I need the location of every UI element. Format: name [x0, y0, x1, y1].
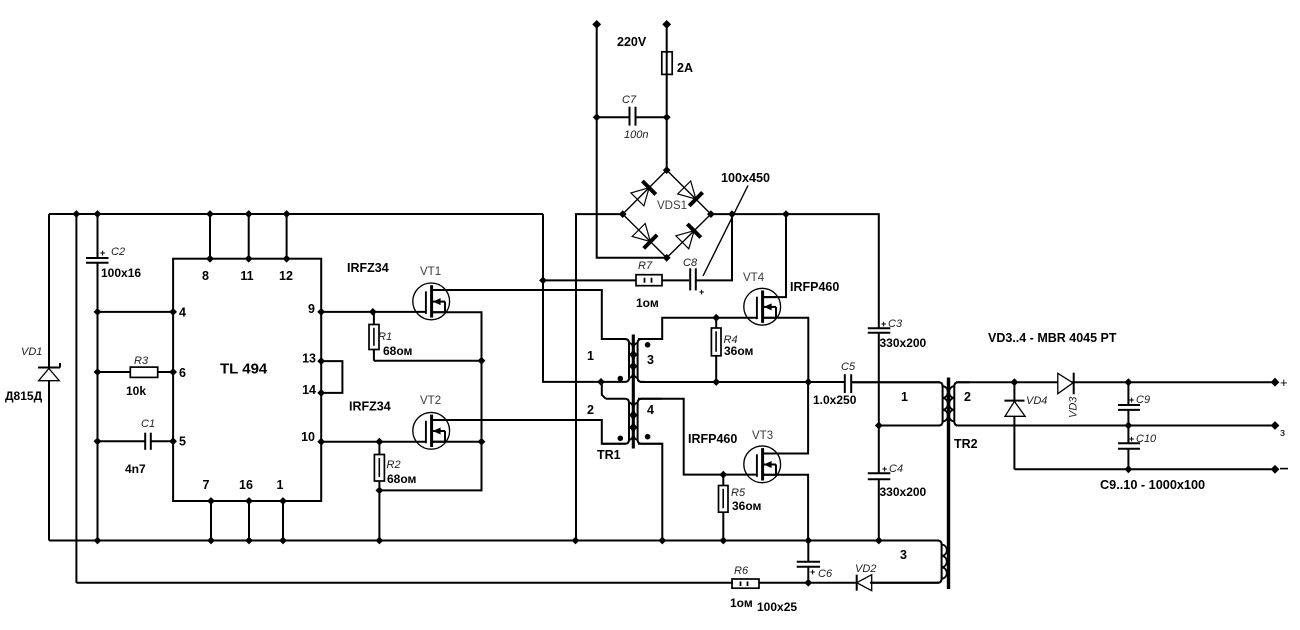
capacitor C4: [868, 463, 927, 499]
op-amp U1 TL494 body: [173, 259, 321, 501]
node C6 / feedback rail: [804, 579, 812, 587]
node R2 top: [376, 438, 384, 446]
pin 11 label: [240, 269, 253, 283]
bridge diode top-right: [678, 181, 703, 206]
node top rail / feedback branch: [73, 210, 81, 218]
wire VT4 source to midpoint: [763, 318, 809, 382]
node VD4 / secondary top: [1011, 378, 1019, 386]
label 100x450 pointer line: [703, 186, 748, 277]
svg-text:C2: C2: [111, 246, 125, 258]
resistor R5: [719, 486, 762, 514]
svg-text:VT1: VT1: [420, 266, 441, 278]
svg-text:2A: 2A: [677, 61, 693, 75]
svg-text:3: 3: [900, 548, 907, 562]
resistor R2: [374, 455, 416, 487]
svg-text:Д815Д: Д815Д: [5, 389, 43, 403]
pin 16 label: [239, 478, 253, 492]
diode VD3: [1058, 373, 1080, 418]
wire pin 8 to rail: [209, 214, 211, 259]
node VT2 source: [478, 438, 486, 446]
label C9..10 - 1000x100: [1100, 478, 1205, 492]
node pin 4: [169, 308, 177, 316]
svg-text:TR1: TR1: [597, 448, 621, 462]
node VT3 source / ground rail: [804, 537, 812, 545]
svg-text:8: 8: [202, 269, 209, 283]
pin 9 label: [308, 302, 315, 316]
svg-text:VD3..4 - MBR 4045 PT: VD3..4 - MBR 4045 PT: [988, 331, 1117, 345]
node C4 / ground rail: [875, 537, 883, 545]
svg-text:7: 7: [203, 478, 210, 492]
label IRFZ34 for VT2: [349, 400, 391, 414]
capacitor C6: [757, 562, 833, 614]
wire pin 7 to ground: [210, 501, 212, 541]
node pin 5: [169, 437, 177, 445]
wire VT3 source to ground: [763, 475, 809, 541]
TR1 winding 2: [587, 399, 633, 444]
node R1 top: [369, 308, 377, 316]
svg-text:11: 11: [240, 269, 253, 283]
wire C4 to ground: [878, 479, 880, 540]
svg-text:330x200: 330x200: [880, 336, 927, 350]
node R2 / ground rail: [376, 537, 384, 545]
wire C3 to C4: [878, 333, 880, 474]
wire VD4 branch: [1013, 382, 1015, 469]
bridge diode left-top: [631, 181, 656, 206]
node C2 branch / ground rail: [94, 537, 102, 545]
node pin 14: [317, 389, 325, 397]
svg-text:14: 14: [302, 383, 316, 397]
svg-text:+: +: [1280, 375, 1288, 390]
wire bridge minus to ground: [576, 214, 623, 540]
node TR1 center tap: [597, 378, 605, 386]
svg-text:C10: C10: [1136, 433, 1157, 445]
svg-text:5: 5: [179, 435, 186, 449]
svg-text:4n7: 4n7: [125, 462, 146, 476]
svg-text:2: 2: [964, 390, 971, 404]
wire bridge plus rail: [711, 214, 879, 328]
node C2 branch / C1: [94, 437, 102, 445]
transistor VT1 IRFZ34: [413, 266, 450, 320]
diode VD2: [855, 563, 876, 591]
node pin 7: [207, 497, 215, 505]
svg-text:C5: C5: [841, 361, 856, 373]
node R7 left / supply drop: [539, 277, 547, 285]
terminal minus: [1271, 465, 1288, 474]
node plus rail / C8 branch: [728, 210, 736, 218]
node C3-C4 / TR2 winding 1: [875, 422, 883, 430]
svg-text:100x16: 100x16: [101, 266, 141, 280]
resistor R6: [730, 565, 759, 610]
svg-text:3: 3: [647, 353, 654, 367]
wire R1 bottom lead: [373, 350, 375, 361]
svg-text:36ом: 36ом: [732, 499, 762, 513]
wire TR2 secondary top to plus terminal: [956, 381, 1275, 383]
wire pin 11 to rail: [248, 214, 250, 259]
diode bridge VDS1 frame: [623, 170, 711, 258]
svg-text:R5: R5: [731, 487, 746, 499]
svg-text:100n: 100n: [624, 129, 648, 141]
wire left vertical to VD1 and ground: [48, 214, 50, 541]
node pin 16: [245, 497, 253, 505]
svg-text:R2: R2: [387, 459, 401, 471]
svg-text:330x200: 330x200: [880, 485, 927, 499]
capacitor C3: [868, 318, 927, 350]
wire C2 branch lower: [97, 263, 99, 541]
wire VT1 source loop: [379, 312, 481, 490]
node pin 6: [169, 368, 177, 376]
svg-text:C9: C9: [1136, 394, 1150, 406]
wire R1 bottom to source node: [374, 360, 482, 362]
transistor VT4 IRFP460: [743, 272, 781, 325]
wire C9-C10 middle leads: [1127, 410, 1129, 443]
pin 4 label: [179, 306, 186, 320]
TR2 winding 1: [851, 382, 948, 425]
svg-text:IRFZ34: IRFZ34: [349, 400, 391, 414]
svg-text:IRFP460: IRFP460: [688, 432, 737, 446]
svg-text:VD2: VD2: [855, 563, 876, 575]
node C9 top: [1125, 378, 1133, 386]
svg-text:+: +: [1129, 434, 1134, 444]
node half-bridge midpoint: [804, 378, 812, 386]
wire TR1 winding 3 to VT4 gate: [638, 318, 757, 339]
svg-text:VD4: VD4: [1026, 395, 1047, 407]
node ground rail / pin 1: [279, 537, 287, 545]
wire pin 12 to rail: [286, 214, 288, 259]
node pin 1: [279, 497, 287, 505]
svg-text:IRFZ34: IRFZ34: [347, 261, 389, 275]
resistor R4: [711, 328, 753, 358]
node VT1 source / R1: [478, 357, 486, 365]
svg-text:1ом: 1ом: [636, 296, 659, 310]
node R2 bottom: [376, 487, 384, 495]
wire TR1 winding 4 to VT3 gate: [638, 399, 757, 475]
svg-text:R7: R7: [638, 260, 653, 272]
diode VD4: [1004, 395, 1047, 416]
capacitor C5: [813, 361, 857, 407]
svg-text:C7: C7: [622, 94, 637, 106]
wire 220V left leg: [597, 24, 667, 257]
terminal 220V left: [592, 20, 601, 29]
svg-text:R6: R6: [734, 565, 749, 577]
wire VT3 drain to midpoint: [763, 382, 809, 454]
svg-text:6: 6: [179, 366, 186, 380]
transistor VT2 IRFZ34: [413, 395, 450, 449]
svg-text:1: 1: [277, 478, 284, 492]
svg-text:C4: C4: [889, 463, 903, 475]
svg-text:TR2: TR2: [954, 437, 978, 451]
svg-text:TL 494: TL 494: [220, 361, 268, 378]
label IRFP460 for VT3: [688, 432, 737, 446]
pin 12 label: [279, 269, 293, 283]
wire top supply rail: [49, 213, 543, 215]
svg-text:+: +: [1129, 395, 1134, 405]
wire pin 5 lead right of C1: [151, 440, 173, 442]
wire C6 top lead: [807, 541, 809, 562]
svg-text:R1: R1: [378, 331, 392, 343]
label VDS1: [657, 200, 687, 212]
node top rail / pin 12: [283, 210, 291, 218]
wire C9 top lead: [1127, 382, 1129, 405]
wire C10 bottom lead: [1127, 449, 1129, 470]
terminal mid: [1271, 421, 1285, 439]
svg-text:IRFP460: IRFP460: [790, 280, 839, 294]
TR1 winding 4: [633, 399, 662, 444]
node plus rail / VT4 drain: [782, 210, 790, 218]
svg-text:VT3: VT3: [752, 430, 773, 442]
svg-text:VDS1: VDS1: [657, 200, 687, 212]
wire C7 left lead: [597, 116, 630, 118]
svg-text:C6: C6: [818, 568, 833, 580]
svg-text:1ом: 1ом: [730, 596, 753, 610]
TR1 winding 4 phase dot: [645, 434, 651, 440]
node R5 / ground rail: [719, 537, 727, 545]
node bridge minus / ground rail: [572, 537, 580, 545]
label IRFZ34 for VT1: [347, 261, 389, 275]
bridge diode left-bottom: [632, 224, 657, 249]
resistor R7: [636, 260, 662, 310]
TR1 winding 3: [633, 339, 662, 382]
wire R5 bottom lead: [722, 512, 724, 540]
wire second left vertical (feedback supply): [75, 214, 77, 583]
pin 5 label: [179, 435, 186, 449]
wire pin 6 lead right of R3: [158, 371, 173, 373]
label TR2: [954, 437, 978, 451]
svg-text:10: 10: [301, 430, 315, 444]
svg-text:C9..10 - 1000x100: C9..10 - 1000x100: [1100, 478, 1205, 492]
wire pins 13-14 jumper: [321, 361, 342, 393]
label TR1: [597, 448, 621, 462]
svg-text:R3: R3: [134, 355, 149, 367]
pin 1 label: [277, 478, 284, 492]
bridge diode bottom-right: [676, 224, 701, 249]
TR1 winding 1: [587, 339, 633, 382]
wire TR2 secondary bottom to mid terminal: [956, 425, 1275, 427]
capacitor C7: [622, 94, 648, 141]
svg-text:1: 1: [901, 390, 908, 404]
node pin 8: [206, 255, 214, 263]
svg-text:1.0x250: 1.0x250: [813, 393, 857, 407]
wire 220V right leg through fuse: [666, 24, 668, 170]
fuse 2A: [662, 52, 693, 75]
wire VT2 drain to TR1 winding 2: [432, 420, 626, 444]
wire VT1 drain to TR1 winding 1: [432, 290, 626, 339]
label IRFP460 for VT4: [790, 280, 839, 294]
svg-text:+: +: [699, 287, 704, 297]
wire R7 to C8: [662, 279, 689, 281]
node TR1 winding 4 / ground rail: [658, 537, 666, 545]
transformer TR2 core: [947, 378, 950, 590]
node pin 10: [317, 438, 325, 446]
node C7 right: [663, 113, 671, 121]
TR1 winding 2 phase dot: [618, 436, 624, 442]
svg-text:+: +: [810, 567, 815, 577]
svg-text:4: 4: [647, 403, 654, 417]
svg-text:12: 12: [279, 269, 293, 283]
wire pin 16 to ground: [248, 501, 250, 541]
wire supply drop to R7 and TR1 center tap: [543, 214, 601, 382]
svg-text:VD3: VD3: [1068, 396, 1080, 418]
node pin 12: [283, 255, 291, 263]
svg-text:VD1: VD1: [21, 346, 42, 358]
node top rail / pin 11: [245, 210, 253, 218]
svg-text:1: 1: [587, 349, 594, 363]
svg-text:4: 4: [179, 306, 186, 320]
wire minus output line: [1014, 468, 1275, 470]
svg-text:220V: 220V: [617, 35, 647, 49]
svg-text:+: +: [100, 248, 105, 258]
svg-text:13: 13: [302, 352, 316, 366]
node bridge AC bottom: [663, 254, 671, 262]
wire TR1 winding 4 bottom to ground: [638, 444, 662, 541]
wire R7 left lead: [543, 279, 636, 281]
svg-text:16: 16: [239, 478, 253, 492]
svg-text:36ом: 36ом: [724, 344, 754, 358]
node top rail / pin 8: [206, 210, 214, 218]
node VT4 gate / R4: [712, 314, 720, 322]
resistor R3: [126, 355, 158, 398]
wire R4 bottom lead: [715, 356, 717, 382]
TR1 winding 3 phase dot: [645, 342, 651, 348]
capacitor C2: [86, 246, 141, 280]
capacitor C8: [683, 257, 704, 297]
wire R5 top lead: [722, 475, 724, 486]
wire feedback rail left of R6: [76, 582, 733, 584]
TR2 winding 2: [949, 382, 971, 425]
node C7 left: [593, 113, 601, 121]
wire TR2 winding 1 bottom lead: [879, 425, 940, 427]
capacitor C10: [1118, 433, 1157, 449]
svg-text:з: з: [1280, 427, 1285, 439]
pin 8 label: [202, 269, 209, 283]
node bridge AC top: [663, 166, 671, 174]
node pin 9: [317, 308, 325, 316]
transistor VT3 IRFP460: [744, 430, 781, 483]
node C10 bottom: [1125, 465, 1133, 473]
wire VT2 source stub: [432, 441, 482, 443]
svg-text:68ом: 68ом: [387, 472, 417, 486]
transformer TR1 core: [632, 335, 635, 449]
pin 14 label: [302, 383, 316, 397]
wire pin 5 lead left of C1: [98, 440, 146, 442]
node C2 branch / R3: [94, 368, 102, 376]
pin 6 label: [179, 366, 186, 380]
wire R4 top lead: [715, 318, 717, 328]
wire C6 bottom lead: [807, 567, 809, 583]
capacitor C1: [125, 418, 155, 476]
wire pin 4 lead: [98, 311, 174, 313]
wire ground rail: [49, 540, 939, 542]
label 100x450: [721, 171, 770, 185]
node bridge minus: [619, 210, 627, 218]
svg-text:C3: C3: [888, 318, 903, 330]
TR1 winding 1 phase dot: [618, 376, 624, 382]
pin 7 label: [203, 478, 210, 492]
svg-text:10k: 10k: [126, 384, 146, 398]
wire C7 right lead: [636, 116, 667, 118]
node R4 bottom / midpoint: [712, 378, 720, 386]
svg-text:VT2: VT2: [420, 395, 441, 407]
svg-text:100x450: 100x450: [721, 171, 770, 185]
svg-text:100x25: 100x25: [757, 600, 797, 614]
wire pin 1 to ground: [282, 501, 284, 541]
svg-text:68ом: 68ом: [383, 344, 413, 358]
svg-text:+: +: [882, 464, 887, 474]
wire C8 to top rail: [697, 214, 733, 280]
svg-text:C8: C8: [683, 257, 698, 269]
node bridge plus: [707, 210, 715, 218]
wire VT4 drain to plus rail: [763, 214, 786, 297]
capacitor C9: [1118, 394, 1150, 410]
wire R1 top lead: [373, 312, 375, 325]
resistor R1: [369, 325, 413, 359]
label 220V: [617, 35, 647, 49]
wire R2 top lead: [378, 442, 380, 455]
pin 10 label: [301, 430, 315, 444]
terminal plus: [1271, 375, 1288, 390]
terminal 220V right: [662, 20, 671, 29]
svg-text:9: 9: [308, 302, 315, 316]
node pin 13: [317, 357, 325, 365]
wire pin 6 lead left of R3: [98, 371, 131, 373]
wire pin 10 to VT2 gate: [321, 441, 426, 443]
node VT3 gate / R5: [719, 471, 727, 479]
node ground rail / pin 7: [207, 537, 215, 545]
node ground rail / pin 16: [245, 537, 253, 545]
svg-text:VT4: VT4: [743, 272, 765, 284]
svg-text:2: 2: [587, 403, 594, 417]
node C2 branch / pin 4: [94, 308, 102, 316]
wire C2 branch upper: [97, 214, 99, 258]
wire midpoint line to C5: [640, 381, 845, 383]
wire R2 bottom to ground: [378, 481, 380, 541]
svg-text:C1: C1: [141, 418, 155, 430]
label VD3..4 - MBR 4045 PT: [988, 331, 1117, 345]
pin 13 label: [302, 352, 316, 366]
node C9-C10 mid: [1125, 422, 1133, 430]
TR2 winding 3: [870, 541, 947, 583]
wire C5 to TR2 winding 1: [851, 381, 940, 383]
wire feedback rail right of R6: [759, 582, 939, 584]
node pin 11: [245, 255, 253, 263]
node top rail / C2 branch: [94, 210, 102, 218]
zener diode VD1: [5, 346, 60, 403]
svg-text:+: +: [881, 319, 886, 329]
wire pin 9 to VT1 gate: [321, 311, 426, 313]
wire TR1 center tap to winding 2: [601, 382, 606, 399]
